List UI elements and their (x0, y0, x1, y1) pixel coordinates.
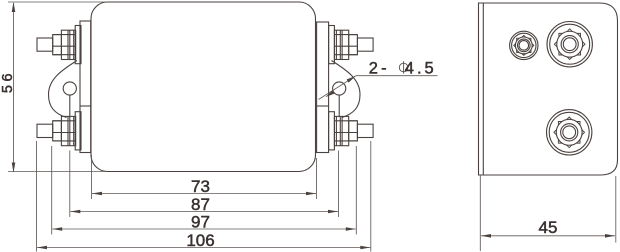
dim 106 extension right (370, 141, 372, 252)
dim 73 extension left (91, 155, 93, 199)
filter body (front view rounded rectangle) (91, 2, 316, 172)
svg-text:73: 73 (191, 177, 210, 196)
left bottom terminal mid body (53, 121, 62, 141)
svg-text:87: 87 (191, 195, 210, 214)
right top terminal nut (334, 30, 348, 59)
dim 73 extension right (316, 158, 318, 199)
right bottom terminal nut (334, 116, 348, 145)
dim 45 extension right (615, 176, 617, 243)
arrow 87 left (70, 210, 80, 214)
right hole centerline (338, 95, 340, 116)
side view small terminal circles (510, 31, 538, 59)
dim 106 extension left (36, 141, 38, 252)
left mounting flange plate (80, 21, 91, 153)
right top terminal washer (329, 26, 335, 64)
arrow 87 right (328, 210, 338, 214)
arrow 45 left (481, 234, 491, 238)
arrow 106 right (360, 246, 370, 250)
left top terminal nut (61, 30, 75, 59)
svg-text:97: 97 (191, 213, 210, 232)
right bottom terminal washer (329, 112, 335, 150)
leader arrowhead upper (347, 76, 356, 83)
right bottom terminal mid body (349, 121, 358, 141)
dim 45 extension left (479, 175, 481, 251)
arrow 45 right (605, 234, 615, 238)
left bottom terminal nut (61, 116, 75, 145)
diameter symbol circle (399, 63, 408, 72)
right bottom terminal stud tip (357, 124, 373, 137)
arrow 73 right (306, 192, 316, 196)
bottom extension line for dim 56 (8, 171, 107, 173)
left hole centerline (69, 95, 71, 116)
dim 73 line (92, 193, 316, 195)
dim 97 extension right (355, 146, 357, 235)
dim 56 line (13, 3, 15, 172)
side view outline (479, 3, 618, 175)
left bracket wing curve (49, 61, 78, 118)
left top terminal mid body (53, 35, 62, 55)
dim 45 line (481, 235, 615, 237)
left top terminal washer (75, 26, 81, 64)
left top terminal stud tip (37, 38, 53, 51)
svg-text:4.5: 4.5 (405, 60, 437, 78)
side view big terminal top circles (547, 22, 592, 67)
svg-text:56: 56 (0, 70, 16, 93)
right bracket wing curve (332, 61, 361, 118)
arrow 97 right (346, 227, 356, 231)
arrow 56 up (12, 2, 16, 12)
right top terminal mid body (349, 35, 358, 55)
svg-text:45: 45 (539, 218, 558, 237)
left bottom terminal washer (75, 112, 81, 150)
right mounting hole (333, 82, 346, 95)
leader underline for 2-phi4.5 (356, 75, 438, 77)
left mounting hole (63, 82, 76, 95)
dim 97 line (52, 228, 356, 230)
arrow 56 down (12, 163, 16, 173)
dim 87 extension left (69, 151, 71, 218)
top extension line for dim 56 (8, 1, 107, 3)
left bottom terminal stud tip (37, 124, 53, 137)
right top terminal stud tip (357, 38, 373, 51)
arrow 97 left (52, 227, 62, 231)
side view flange fold line (482, 3, 484, 175)
arrow 106 left (37, 246, 47, 250)
dim 97 extension left (51, 146, 53, 235)
svg-text:106: 106 (186, 231, 214, 250)
svg-text:2-: 2- (369, 60, 390, 78)
dim 106 line (37, 247, 370, 249)
diameter symbol bar (403, 61, 405, 73)
dim 87 extension right (338, 151, 340, 218)
side view big terminal bottom circles (547, 110, 592, 155)
dim 87 line (70, 211, 338, 213)
leader diagonal to right hole (319, 76, 357, 100)
arrow 73 left (92, 192, 102, 196)
leader arrowhead lower (325, 90, 334, 97)
right mounting flange plate (317, 22, 329, 153)
